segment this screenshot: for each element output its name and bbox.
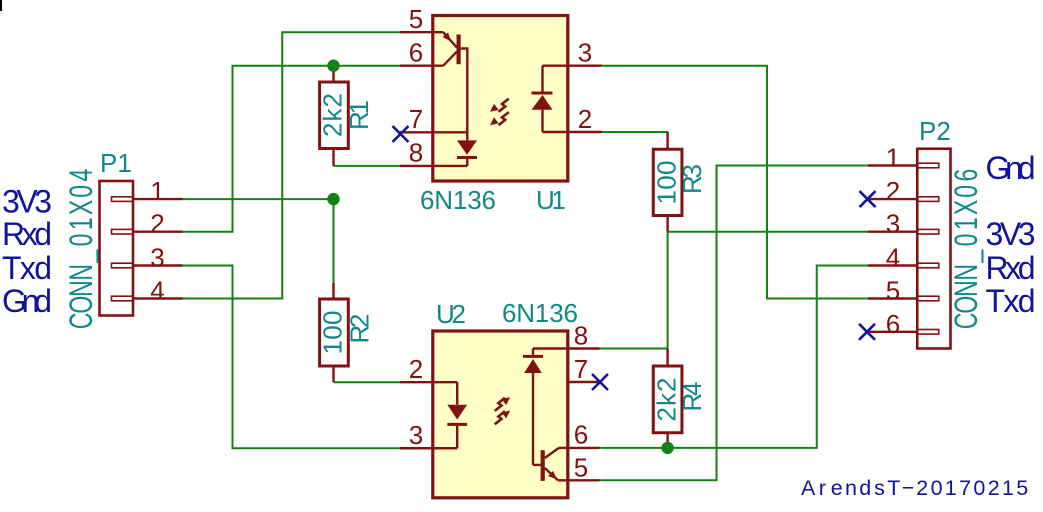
svg-text:Gnd: Gnd — [986, 150, 1036, 186]
svg-text:2: 2 — [150, 209, 164, 239]
U1 pin 5 — [400, 31, 443, 33]
page corner mark — [0, 0, 2, 11]
wire U1 pin3 to P2 pin5 Txd — [602, 66, 868, 299]
transistor Q of U1 — [433, 32, 468, 140]
svg-text:Rxd: Rxd — [2, 216, 52, 252]
svg-text:100: 100 — [318, 311, 348, 355]
U1 pin 6 — [400, 64, 443, 66]
wire R1 bottom to U1 pin8 — [334, 165, 401, 167]
resistor R2 — [320, 283, 349, 382]
U1 pin 2 — [568, 131, 602, 133]
svg-text:3V3: 3V3 — [986, 216, 1036, 252]
svg-text:ArendsT−20170215: ArendsT−20170215 — [801, 476, 1028, 500]
svg-text:6: 6 — [886, 309, 900, 339]
wire R3 bottom to P2 pin3 3V3 — [668, 231, 868, 233]
svg-text:Gnd: Gnd — [2, 283, 52, 319]
U1 pin 3 — [568, 64, 602, 66]
U2 pin 3 — [400, 447, 433, 449]
svg-text:1: 1 — [886, 143, 900, 173]
svg-text:7: 7 — [574, 354, 588, 384]
svg-text:Txd: Txd — [2, 250, 52, 286]
op-amp placeholder U2 body — [433, 331, 568, 498]
connector P2 — [868, 149, 951, 349]
wire P1 pin3 Txd to U2 pin3 — [183, 266, 401, 449]
op-amp placeholder U1 body — [433, 16, 568, 182]
junction dot R1 top — [327, 59, 339, 71]
wire P1 pin2 Rxd to U1 pin6 — [183, 66, 401, 232]
svg-text:3: 3 — [150, 243, 164, 273]
light arrows U2 — [495, 397, 511, 424]
svg-text:5: 5 — [574, 453, 588, 483]
svg-text:2k2: 2k2 — [318, 93, 348, 137]
svg-text:P2: P2 — [919, 116, 951, 146]
light arrows U1 — [490, 99, 509, 126]
svg-text:U2: U2 — [436, 299, 466, 329]
resistor R4 — [653, 349, 682, 448]
wire P2 pin1 Gnd to U2 pin5 — [600, 166, 869, 481]
no-connect X P2 pin6 — [859, 324, 875, 340]
svg-text:6N136: 6N136 — [420, 185, 496, 215]
svg-text:4: 4 — [150, 276, 164, 306]
no-connect X P2 pin2 — [860, 191, 876, 207]
svg-text:R2: R2 — [345, 314, 375, 344]
connector P1 — [100, 181, 183, 316]
wire P1 pin1 3V3 to junction A — [183, 198, 334, 200]
svg-text:R3: R3 — [677, 164, 707, 194]
wire U2 pin6 to P2 pin4 Rxd — [600, 266, 869, 448]
svg-text:2: 2 — [578, 104, 592, 134]
svg-text:Txd: Txd — [986, 283, 1036, 319]
no-connect X U2 pin7 — [592, 374, 608, 390]
svg-text:CONN_01X06: CONN_01X06 — [948, 169, 984, 330]
svg-text:3: 3 — [886, 209, 900, 239]
svg-text:8: 8 — [409, 138, 423, 168]
wire junction A down to R2 top — [333, 199, 335, 283]
svg-text:6: 6 — [574, 420, 588, 450]
U2 pin 5 — [568, 479, 600, 481]
svg-text:6N136: 6N136 — [502, 298, 578, 328]
wire P1 pin4 Gnd to U1 pin5 — [183, 32, 401, 298]
photodiode of U1 — [433, 140, 477, 166]
transistor Q of U2 — [541, 448, 568, 481]
wire R3 bottom down to node B — [667, 232, 669, 349]
wire U1 pin2 to R3 top — [602, 131, 668, 133]
svg-text:CONN_01X04: CONN_01X04 — [63, 169, 99, 330]
svg-text:5: 5 — [886, 276, 900, 306]
svg-text:1: 1 — [150, 176, 164, 206]
resistor R1 — [320, 66, 349, 166]
U2 pin 7 — [568, 381, 600, 383]
svg-text:R4: R4 — [677, 382, 707, 412]
svg-text:3: 3 — [409, 420, 423, 450]
U1 pin 7 — [400, 131, 433, 133]
wire R2 bottom to U2 pin2 — [334, 381, 401, 383]
svg-text:3V3: 3V3 — [2, 184, 52, 220]
svg-text:2: 2 — [886, 176, 900, 206]
input LED of U1 — [532, 66, 568, 132]
U2 pin 6 — [568, 447, 600, 449]
svg-text:Rxd: Rxd — [986, 250, 1036, 286]
U1 pin 8 — [400, 165, 433, 167]
junction dot A — [327, 193, 339, 205]
U2 pin 2 — [400, 381, 433, 383]
input LED of U2 — [433, 382, 467, 448]
svg-text:3: 3 — [578, 38, 592, 68]
U2 pin 8 — [568, 347, 600, 349]
svg-text:P1: P1 — [100, 148, 132, 178]
svg-text:U1: U1 — [536, 185, 566, 215]
wire node B to U2 pin8 — [600, 348, 668, 350]
junction dot R4 bottom — [661, 442, 673, 454]
svg-text:R1: R1 — [344, 100, 374, 130]
svg-text:6: 6 — [409, 38, 423, 68]
svg-text:5: 5 — [409, 4, 423, 34]
svg-text:4: 4 — [886, 243, 900, 273]
no-connect X U1 pin7 — [393, 126, 409, 142]
resistor R3 — [653, 132, 682, 232]
photodiode of U2 — [523, 349, 568, 465]
svg-text:7: 7 — [409, 104, 423, 134]
svg-text:2: 2 — [409, 354, 423, 384]
